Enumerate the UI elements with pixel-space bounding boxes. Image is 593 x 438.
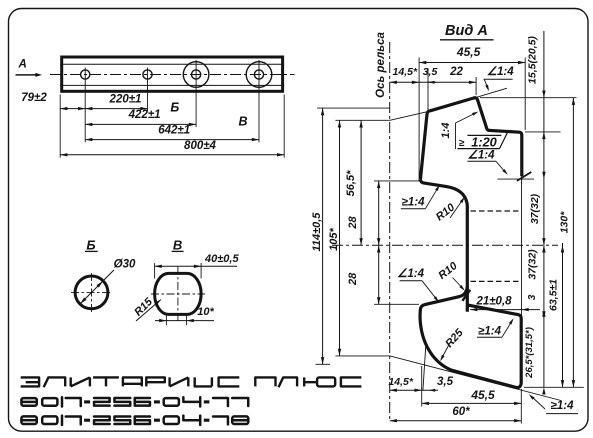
dimension 114±0,5 xyxy=(322,108,324,364)
svg-text:114±0,5: 114±0,5 xyxy=(311,212,323,252)
dimension 22 top xyxy=(428,81,476,83)
dimension 422±1 xyxy=(85,123,196,125)
dimension 10* xyxy=(165,315,167,326)
extension line bottom left of foot xyxy=(421,366,423,407)
svg-text:≥1:4: ≥1:4 xyxy=(402,196,426,208)
dimension 14,5* bottom xyxy=(390,389,422,391)
svg-text:≥1:4: ≥1:4 xyxy=(551,400,575,412)
extension line top left upper xyxy=(317,107,390,109)
tick at head vertical lower end xyxy=(517,172,531,181)
hole 1 small xyxy=(81,70,90,79)
svg-text:3,5: 3,5 xyxy=(423,66,438,78)
fishplate bar outline xyxy=(62,57,283,91)
hole 3 large with pilot xyxy=(183,62,209,88)
svg-text:45,5: 45,5 xyxy=(456,45,481,59)
extension lines for 28 dims xyxy=(374,180,421,182)
dimension 28 upper xyxy=(378,181,380,245)
dimension 130* xyxy=(572,98,574,388)
radius leader R15 xyxy=(136,300,161,322)
svg-text:1:4: 1:4 xyxy=(440,123,452,139)
svg-text:800±4: 800±4 xyxy=(184,140,216,152)
svg-text:≥: ≥ xyxy=(459,138,465,149)
svg-text:28: 28 xyxy=(347,216,359,230)
extension line bottom right horizontal xyxy=(524,386,584,388)
detail V slot shape xyxy=(155,273,202,314)
detail V centerlines xyxy=(151,293,205,295)
svg-text:∠1:4: ∠1:4 xyxy=(397,268,425,280)
svg-text:Б: Б xyxy=(170,100,179,114)
rail head underside and web right face xyxy=(420,180,467,312)
bottom slope construction line xyxy=(335,356,561,401)
dimension 3,5 bottom xyxy=(422,389,438,391)
phone number line 8017-256-04-77 xyxy=(21,398,36,406)
svg-text:79±2: 79±2 xyxy=(21,92,47,104)
extension line top right horizontal xyxy=(480,97,577,99)
svg-text:А: А xyxy=(18,59,27,71)
dimension 79±2 xyxy=(60,108,85,110)
phone number line 8017-256-04-78 xyxy=(21,416,36,424)
dimension 14,5* top xyxy=(390,81,419,83)
svg-text:56,5*: 56,5* xyxy=(345,170,357,196)
svg-text:642±1: 642±1 xyxy=(158,125,190,137)
profile horizontal centerline xyxy=(332,244,558,246)
dimension 800±4 xyxy=(60,154,284,156)
dimension 56,5* xyxy=(360,120,362,245)
svg-text:14,5*: 14,5* xyxy=(393,66,418,78)
dimension 40±0,5 xyxy=(154,263,156,279)
svg-text:15,5(20,5): 15,5(20,5) xyxy=(527,36,539,84)
company name line ELITARIUS PLUS xyxy=(21,377,39,386)
hole 2 small xyxy=(143,70,152,79)
hidden dashed line lower xyxy=(471,280,522,282)
svg-text:В: В xyxy=(238,115,247,129)
svg-text:Вид А: Вид А xyxy=(445,23,488,39)
svg-text:В: В xyxy=(173,238,182,253)
extension lines under bar xyxy=(59,95,61,158)
rail head outline xyxy=(420,98,521,180)
dimension 105* xyxy=(339,120,341,356)
svg-text:10*: 10* xyxy=(197,306,214,318)
detail B diameter leader Ф30 xyxy=(80,270,114,304)
short extension at head vertical end xyxy=(497,178,534,180)
extension line at 1:20 corner level xyxy=(525,131,561,133)
svg-text:∠1:4: ∠1:4 xyxy=(468,149,496,161)
svg-text:130*: 130* xyxy=(558,211,570,234)
svg-text:105*: 105* xyxy=(328,227,340,250)
svg-text:≥1:4: ≥1:4 xyxy=(478,326,502,338)
hidden dashed line upper xyxy=(471,210,522,212)
dimension 642±1 xyxy=(85,139,259,141)
svg-text:37(32): 37(32) xyxy=(526,249,538,280)
slope construction line top xyxy=(390,112,428,121)
svg-text:14,5*: 14,5* xyxy=(388,376,413,388)
svg-text:22: 22 xyxy=(449,66,463,78)
svg-text:∠1:4: ∠1:4 xyxy=(487,66,515,78)
dimension 45,5 top xyxy=(419,62,525,64)
hole 4 large with pilot xyxy=(246,62,272,88)
svg-text:Ось рельса: Ось рельса xyxy=(375,32,387,98)
detail B hole circle xyxy=(75,276,108,309)
svg-text:Ø30: Ø30 xyxy=(114,259,136,271)
view arrow A xyxy=(16,74,39,76)
dimension 60* xyxy=(390,420,522,422)
tick at 21 dimension left end xyxy=(462,290,470,301)
dimension 220±1 xyxy=(85,108,147,110)
svg-text:63,5±1: 63,5±1 xyxy=(548,279,560,311)
svg-text:60*: 60* xyxy=(452,406,470,418)
dimension line 15,5(20,5) / 37(32) / 3 / 26,5(31,5) column xyxy=(543,31,545,387)
extension lines top xyxy=(418,58,420,181)
svg-text:37(32): 37(32) xyxy=(529,193,541,224)
svg-text:1:20: 1:20 xyxy=(471,134,497,149)
extension line right face xyxy=(521,176,523,317)
fishplate bar inner top line xyxy=(60,63,284,65)
svg-text:40±0,5: 40±0,5 xyxy=(204,253,239,265)
dimension 28 lower xyxy=(378,245,380,304)
fishplate bar centerline xyxy=(50,74,295,76)
svg-text:28: 28 xyxy=(347,272,359,286)
detail B centerlines xyxy=(71,291,112,293)
web to foot transition and foot outline xyxy=(420,286,521,388)
svg-text:220±1: 220±1 xyxy=(109,93,142,105)
svg-text:3: 3 xyxy=(527,294,538,300)
extension line top left lower xyxy=(335,119,390,121)
svg-text:422±1: 422±1 xyxy=(128,109,161,121)
slanted extension for 3,5 bottom xyxy=(423,345,426,391)
svg-text:Б: Б xyxy=(86,238,95,253)
rail axis centerline xyxy=(389,42,391,422)
svg-text:45,5: 45,5 xyxy=(470,388,495,402)
svg-text:3,5: 3,5 xyxy=(437,376,454,388)
svg-text:26,5*(31,5*): 26,5*(31,5*) xyxy=(524,327,535,379)
svg-text:21±0,8: 21±0,8 xyxy=(475,296,512,308)
fishplate bar inner bottom line xyxy=(60,84,284,86)
extension line bottom for 114 xyxy=(316,363,330,365)
dimension 3,5 top xyxy=(419,81,436,83)
dimension 45,5 bottom xyxy=(422,402,522,404)
dimension 63,5±1 xyxy=(562,243,564,387)
